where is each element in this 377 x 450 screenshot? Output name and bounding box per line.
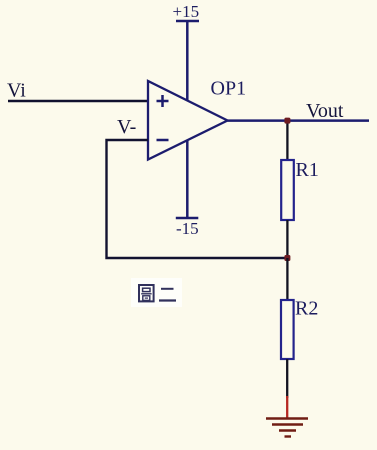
- svg-text:-15: -15: [176, 219, 199, 238]
- svg-text:OP1: OP1: [211, 78, 247, 100]
- svg-text:R2: R2: [295, 298, 318, 320]
- svg-text:Vout: Vout: [306, 100, 344, 122]
- svg-text:R1: R1: [296, 159, 319, 181]
- svg-text:+15: +15: [173, 2, 200, 21]
- svg-text:Vi: Vi: [7, 80, 26, 102]
- svg-text:V-: V-: [117, 116, 136, 138]
